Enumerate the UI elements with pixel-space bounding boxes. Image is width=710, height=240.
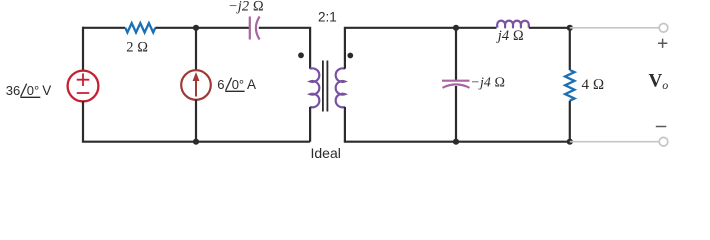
node: junction dot top of capacitor C2 — [453, 25, 459, 31]
svg-text:0°: 0° — [232, 77, 244, 92]
node: junction dot bottom of resistor R2 — [567, 139, 573, 145]
capacitor C1 -j2ohm plates — [250, 17, 260, 40]
label 6/0deg A — [217, 77, 256, 92]
svg-text:0°: 0° — [27, 83, 39, 98]
wire: current source vertical bottom — [195, 100, 197, 142]
node: junction dot top of resistor R2 — [567, 25, 573, 31]
transformer T1 secondary winding — [336, 68, 345, 107]
node: secondary dot — [347, 53, 353, 59]
wire: resistor R2 vertical top — [569, 28, 571, 70]
resistor R1 2ohm — [125, 23, 155, 32]
terminal: top output — [659, 24, 668, 33]
svg-text:4 Ω: 4 Ω — [582, 77, 605, 93]
svg-text:2 Ω: 2 Ω — [126, 39, 148, 55]
label plus sign — [658, 39, 667, 48]
resistor R2 4ohm — [565, 70, 574, 101]
svg-text:−j4 Ω: −j4 Ω — [471, 75, 506, 90]
label 36/0deg V — [6, 83, 51, 98]
wire: bottom rail left — [82, 141, 310, 143]
wire: transformer primary bottom lead — [309, 107, 311, 142]
capacitor C2 -j4ohm plates — [442, 81, 470, 88]
transformer T1 primary winding — [310, 68, 319, 107]
current source I1 6/0 A — [181, 70, 211, 100]
wire: left vertical below voltage source — [82, 101, 84, 142]
node: primary dot — [298, 52, 304, 58]
svg-text:36: 36 — [6, 83, 20, 98]
wire: resistor R2 vertical bottom — [569, 101, 571, 142]
transformer core lines — [323, 61, 328, 112]
node: junction dot bottom of current source — [193, 139, 199, 145]
svg-text:V: V — [42, 83, 51, 98]
inductor L1 j4ohm — [497, 21, 529, 28]
wire: top rail middle (resistor to capacitor C1) — [155, 27, 249, 29]
wire: capacitor C2 vertical bottom — [455, 86, 457, 142]
wire: left vertical above voltage source — [82, 27, 84, 71]
svg-text:2:1: 2:1 — [318, 10, 337, 25]
node: junction dot bottom of capacitor C2 — [453, 139, 459, 145]
wire: current source vertical top — [195, 28, 197, 71]
svg-text:Ideal: Ideal — [311, 145, 341, 161]
svg-text:A: A — [247, 77, 256, 92]
voltage source V1 36/0 V — [68, 71, 99, 102]
label minus sign — [656, 126, 667, 128]
wire: gray output lead bottom — [570, 141, 659, 143]
wire: secondary bottom lead — [344, 107, 346, 142]
wire: secondary top lead and rail to inductor — [345, 28, 497, 69]
wire: top rail inductor to resistor R2 — [529, 27, 570, 29]
wire: top rail left (source to resistor) — [83, 27, 125, 29]
svg-text:−j2 Ω: −j2 Ω — [228, 0, 264, 15]
svg-text:j4 Ω: j4 Ω — [496, 28, 524, 44]
wire: capacitor C2 vertical top — [455, 28, 457, 80]
node: junction dot top of current source — [193, 25, 199, 31]
svg-text:6: 6 — [217, 77, 224, 92]
wire: bottom rail right — [344, 141, 570, 143]
wire: top rail right of C1 to transformer primary corner — [259, 28, 310, 69]
wire: gray output lead top — [570, 27, 659, 29]
terminal: bottom output — [659, 137, 668, 146]
